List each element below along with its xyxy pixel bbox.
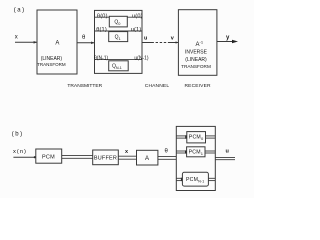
svg-text:BUFFER: BUFFER <box>94 156 117 162</box>
wire pair PCMN-1 left <box>176 177 182 179</box>
wire y output <box>217 41 234 43</box>
inverse transform box A-1 <box>178 10 217 76</box>
svg-text:TRANSFORM: TRANSFORM <box>37 62 66 67</box>
wire theta <box>77 42 94 44</box>
svg-text:u: u <box>226 149 229 155</box>
wire pair PCM1 left <box>176 150 186 152</box>
wire row 1 <box>95 30 143 32</box>
wire double BUFFER-A <box>118 155 136 157</box>
quantizer QN-1 <box>109 61 129 71</box>
svg-text:(a): (a) <box>14 8 26 14</box>
svg-text:u(1): u(1) <box>131 27 142 33</box>
wire double PCM-BUFFER <box>62 154 93 156</box>
wire double u output <box>215 156 235 158</box>
wire x input <box>15 41 37 43</box>
svg-text:PCM1: PCM1 <box>189 149 204 156</box>
svg-text:θ(N-1): θ(N-1) <box>94 56 109 62</box>
transform box A2 <box>137 150 158 165</box>
PCM bank rectangle <box>176 126 215 190</box>
svg-text:θ(0): θ(0) <box>97 14 108 20</box>
svg-text:PCM: PCM <box>42 154 55 160</box>
wire pair PCMN-1 right <box>208 177 215 179</box>
wire pair PCM0 left <box>176 135 187 137</box>
svg-text:u(N-1): u(N-1) <box>134 56 149 62</box>
PCMN-1 box <box>182 172 208 186</box>
svg-text:PCM0: PCM0 <box>189 135 204 142</box>
svg-text:θ(1): θ(1) <box>96 27 107 33</box>
svg-text:RECEIVER: RECEIVER <box>184 83 211 89</box>
svg-text:TRANSMITTER: TRANSMITTER <box>67 83 102 89</box>
svg-text:A: A <box>145 156 149 162</box>
wire row 0 <box>95 16 143 18</box>
wire double A-bank <box>158 155 176 157</box>
svg-text:x: x <box>15 35 18 41</box>
svg-text:x(n): x(n) <box>13 149 27 155</box>
wire pair PCM1 right <box>205 150 215 152</box>
svg-text:TRANSFORM: TRANSFORM <box>181 64 211 69</box>
svg-text:INVERSE: INVERSE <box>185 50 208 56</box>
svg-text:u(0): u(0) <box>132 14 143 20</box>
wire channel dashed <box>142 42 152 44</box>
wire row N-1 <box>95 59 143 61</box>
PCM1 box <box>187 147 205 157</box>
svg-text:Q0: Q0 <box>114 20 121 27</box>
wire input b <box>13 156 35 158</box>
BUFFER box <box>93 150 119 165</box>
svg-text:CHANNEL: CHANNEL <box>145 83 170 89</box>
PCM box <box>36 149 62 163</box>
quantizer bank rectangle <box>95 10 143 73</box>
wire pair PCM0 right <box>206 135 216 137</box>
PCM0 box <box>187 132 206 143</box>
svg-text:A: A <box>55 41 59 47</box>
quantizer Q1 <box>109 32 128 42</box>
svg-text:(b): (b) <box>12 132 24 138</box>
quantizer Q0 <box>109 16 127 27</box>
svg-text:Q1: Q1 <box>115 35 121 42</box>
transform box A1 <box>37 10 77 74</box>
svg-text:u: u <box>144 35 147 41</box>
svg-text:(LINEAR): (LINEAR) <box>185 57 207 63</box>
